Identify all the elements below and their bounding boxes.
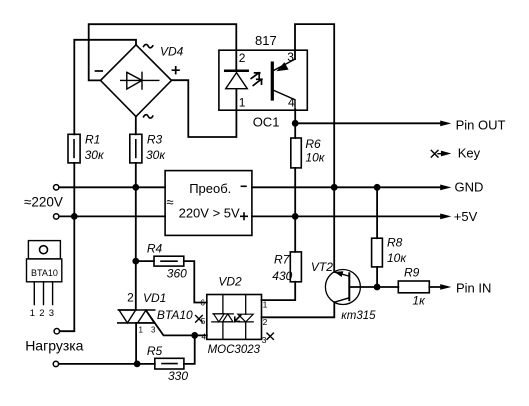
BTA10 package legs [34, 282, 52, 305]
svg-text:VD4: VD4 [160, 44, 184, 58]
tilde at bridge top [144, 44, 153, 47]
terminal: load top [54, 329, 59, 334]
phototransistor inside optocoupler [271, 63, 274, 99]
wire: triac pin 1 down to load line [135, 323, 137, 364]
svg-text:R9: R9 [404, 266, 420, 280]
svg-text:10к: 10к [387, 251, 407, 265]
svg-text:4: 4 [288, 95, 295, 109]
resistor R1 30k [68, 134, 80, 163]
svg-text:1к: 1к [412, 294, 426, 308]
wire: R4 right end to MOC pin 6 [184, 261, 207, 302]
BTA10 package body [27, 259, 62, 282]
wire: gate junction down to R5 right end [184, 335, 195, 364]
svg-text:Pin IN: Pin IN [456, 280, 491, 295]
LED inside optocoupler [225, 70, 248, 73]
svg-text:3: 3 [262, 335, 267, 345]
optocoupler OC1 817 box [219, 50, 307, 110]
junction dot at base/R8/R9 [374, 284, 381, 291]
svg-text:360: 360 [167, 266, 187, 280]
wire: AC 220V bottom line to converter [59, 215, 165, 217]
wire: transistor base bar to R9, R9 to Pin IN arrow [349, 286, 440, 288]
svg-text:Key: Key [458, 145, 481, 160]
wire: R8 from GND line down to base node [376, 187, 378, 287]
wire: AC 220V top line to converter [59, 186, 165, 188]
arrow +5V [440, 214, 451, 220]
svg-text:817: 817 [255, 33, 277, 48]
svg-text:R8: R8 [387, 236, 403, 250]
transistor VT2 emitter diagonal with arrow [335, 272, 350, 276]
converter plus sign [241, 213, 247, 219]
terminal: AC bottom [54, 214, 59, 219]
junction dot at R4 left [132, 258, 139, 265]
svg-text:30к: 30к [85, 148, 105, 162]
svg-text:30к: 30к [146, 148, 166, 162]
resistor R3 30k [130, 134, 142, 163]
wire: R6 bottom to +5V node to R7 top [294, 168, 296, 252]
svg-text:2: 2 [263, 317, 268, 327]
svg-text:R3: R3 [147, 133, 163, 147]
wire: bridge top vertex over to R1 top [74, 40, 136, 135]
terminal: load bottom [53, 361, 58, 366]
transistor VT2 circle [325, 270, 360, 305]
svg-text:BTA10: BTA10 [157, 308, 193, 322]
svg-text:2: 2 [39, 308, 44, 319]
svg-text:VD2: VD2 [218, 275, 242, 289]
arrow GND [440, 185, 451, 191]
svg-text:≈: ≈ [166, 194, 173, 209]
svg-text:R4: R4 [147, 241, 163, 255]
wire: bridge bottom vertex to R3 top [135, 117, 137, 135]
arrow Key [441, 151, 451, 157]
svg-text:3: 3 [287, 50, 294, 64]
converter minus sign [241, 185, 246, 187]
BTA10 package tab [28, 241, 60, 259]
bridge plus sign [172, 67, 179, 74]
wire: R1 bottom down to load terminal [59, 163, 74, 331]
MOC3023 box VD2 [207, 295, 262, 340]
junction dot at Pin OUT/opto pin4 [292, 120, 299, 127]
svg-text:кт315: кт315 [341, 310, 376, 322]
wire: opto pin 4 down to Pin OUT node and R6 [294, 109, 296, 138]
svg-text:R5: R5 [147, 344, 163, 358]
svg-text:R1: R1 [85, 133, 100, 147]
junction dot at gate/MOC pin 4 [191, 332, 198, 339]
cross at Key [431, 150, 441, 157]
wire: GND line [252, 186, 440, 188]
transistor VT2 collector diagonal [334, 298, 349, 302]
resistor R5 330 [155, 358, 184, 369]
resistor R7 430 [290, 252, 301, 282]
converter box Преоб. 220V>5V [165, 171, 252, 236]
svg-text:Pin OUT: Pin OUT [456, 117, 506, 132]
svg-text:1: 1 [239, 95, 246, 109]
junction dot at R1/220V bottom [71, 213, 78, 220]
svg-text:330: 330 [168, 369, 188, 383]
junction dot at GND/base column [331, 184, 338, 191]
svg-text:6: 6 [200, 298, 205, 308]
junction dot at GND/R8 [374, 184, 381, 191]
resistor R9 1k [398, 281, 429, 293]
svg-text:430: 430 [272, 269, 292, 283]
wire: R3 bottom down through junctions to triac VD1 top [135, 163, 137, 310]
light emission arrows inside optocoupler [251, 73, 260, 79]
wire: left AC loop from bridge minus vertex up and over to opto pin 2 [89, 24, 237, 80]
wire: Pin OUT line [295, 122, 440, 124]
svg-text:220V > 5V: 220V > 5V [179, 206, 240, 221]
resistor R4 360 [154, 256, 184, 266]
wire: triac gate to MOC pin 4 [146, 310, 207, 335]
wire: +5V line [252, 215, 440, 217]
arrow Pin IN [440, 284, 451, 290]
BTA10 package hole [40, 246, 48, 254]
svg-text:≈220V: ≈220V [24, 194, 63, 209]
svg-text:4: 4 [201, 332, 206, 342]
resistor R6 10k [291, 138, 302, 168]
LED inside MOC3023 [245, 295, 247, 340]
svg-text:Нагрузка: Нагрузка [25, 338, 83, 354]
wire: R7 bottom to MOC pin 1 [262, 282, 296, 300]
svg-text:VD1: VD1 [143, 291, 166, 305]
svg-text:BTA10: BTA10 [31, 268, 58, 278]
wire: opto pin 3 up over and down to transistor base region [295, 24, 334, 272]
junction dot at load/R5 [134, 361, 141, 368]
svg-text:OC1: OC1 [253, 115, 280, 130]
tilde at bridge bottom [144, 115, 153, 118]
junction dot at R3/220V top [132, 184, 139, 191]
svg-text:5: 5 [201, 316, 206, 326]
svg-text:GND: GND [455, 180, 484, 195]
svg-text:10к: 10к [305, 150, 325, 164]
wire: load bottom terminal to R5 left end [59, 363, 155, 365]
svg-text:MOC3023: MOC3023 [208, 344, 261, 356]
unconnected cross at MOC pin 3 [267, 333, 273, 339]
triac VD1 [118, 310, 155, 323]
mini triac inside MOC3023 [222, 295, 224, 340]
terminal: AC top [54, 185, 59, 190]
svg-text:1: 1 [30, 308, 35, 319]
svg-text:+5V: +5V [454, 209, 478, 224]
svg-text:R7: R7 [274, 253, 291, 267]
wire: R4 left end to center column [136, 260, 154, 262]
svg-text:VT2: VT2 [311, 260, 333, 274]
wire: bridge plus vertex right, down, to opto pin 1 (LED anode) [172, 80, 237, 137]
unconnected cross at MOC pin 5 [196, 316, 203, 323]
arrow Pin OUT [440, 121, 451, 127]
transistor VT2 base bar [348, 273, 350, 300]
svg-text:Преоб.: Преоб. [189, 181, 231, 196]
light arrow inside MOC3023 [235, 315, 241, 321]
bridge minus sign [96, 70, 103, 72]
svg-text:1: 1 [263, 300, 268, 310]
svg-text:3: 3 [49, 308, 54, 319]
svg-text:2: 2 [239, 51, 246, 65]
svg-text:3: 3 [151, 326, 156, 335]
bridge rectifier VD4 diamond [101, 45, 172, 117]
phototransistor collector arrow [276, 62, 288, 71]
wire: transistor emitter bottom to MOC pin 2 [262, 302, 335, 317]
junction dot at R6/+5V [292, 213, 299, 220]
svg-text:2: 2 [127, 291, 134, 305]
diode inside bridge VD4 [121, 72, 159, 89]
resistor R8 10k [372, 238, 383, 267]
svg-text:1: 1 [139, 326, 144, 335]
svg-text:R6: R6 [305, 137, 321, 151]
